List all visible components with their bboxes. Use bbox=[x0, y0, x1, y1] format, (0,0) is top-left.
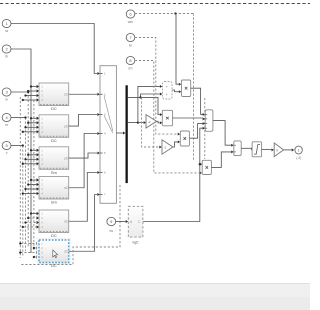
svg-text:0: 0 bbox=[276, 149, 278, 153]
svg-text:sC: sC bbox=[64, 220, 69, 224]
svg-text:DC: DC bbox=[51, 263, 57, 268]
svg-text:sC: sC bbox=[64, 156, 69, 160]
svg-text:-2: -2 bbox=[148, 120, 151, 124]
svg-text:(-4): (-4) bbox=[296, 156, 301, 160]
svg-text:ia: ia bbox=[5, 29, 8, 33]
svg-text:DC: DC bbox=[51, 106, 57, 111]
svg-text:sC: sC bbox=[64, 93, 69, 97]
svg-text:+: + bbox=[166, 85, 168, 89]
svg-text:sC: sC bbox=[64, 250, 69, 254]
svg-text:ib: ib bbox=[5, 55, 8, 59]
svg-text:tw: tw bbox=[110, 229, 114, 233]
svg-text:sC: sC bbox=[64, 124, 69, 128]
svg-text:sC: sC bbox=[64, 186, 69, 190]
svg-text:DC: DC bbox=[51, 233, 57, 238]
svg-text:Sm: Sm bbox=[51, 200, 58, 205]
svg-text:m: m bbox=[5, 123, 8, 127]
svg-text:+: + bbox=[166, 93, 168, 97]
svg-text:te: te bbox=[129, 44, 132, 48]
svg-text:-2: -2 bbox=[164, 146, 167, 150]
svg-text:DC: DC bbox=[51, 138, 57, 143]
svg-text:w: w bbox=[5, 98, 8, 102]
svg-text:tm: tm bbox=[129, 67, 133, 71]
svg-text:1: 1 bbox=[298, 148, 300, 152]
svg-text:tqC: tqC bbox=[132, 240, 138, 245]
svg-text:Sm: Sm bbox=[51, 170, 58, 175]
svg-text:v: v bbox=[6, 151, 8, 155]
svg-text:wm: wm bbox=[128, 20, 134, 24]
